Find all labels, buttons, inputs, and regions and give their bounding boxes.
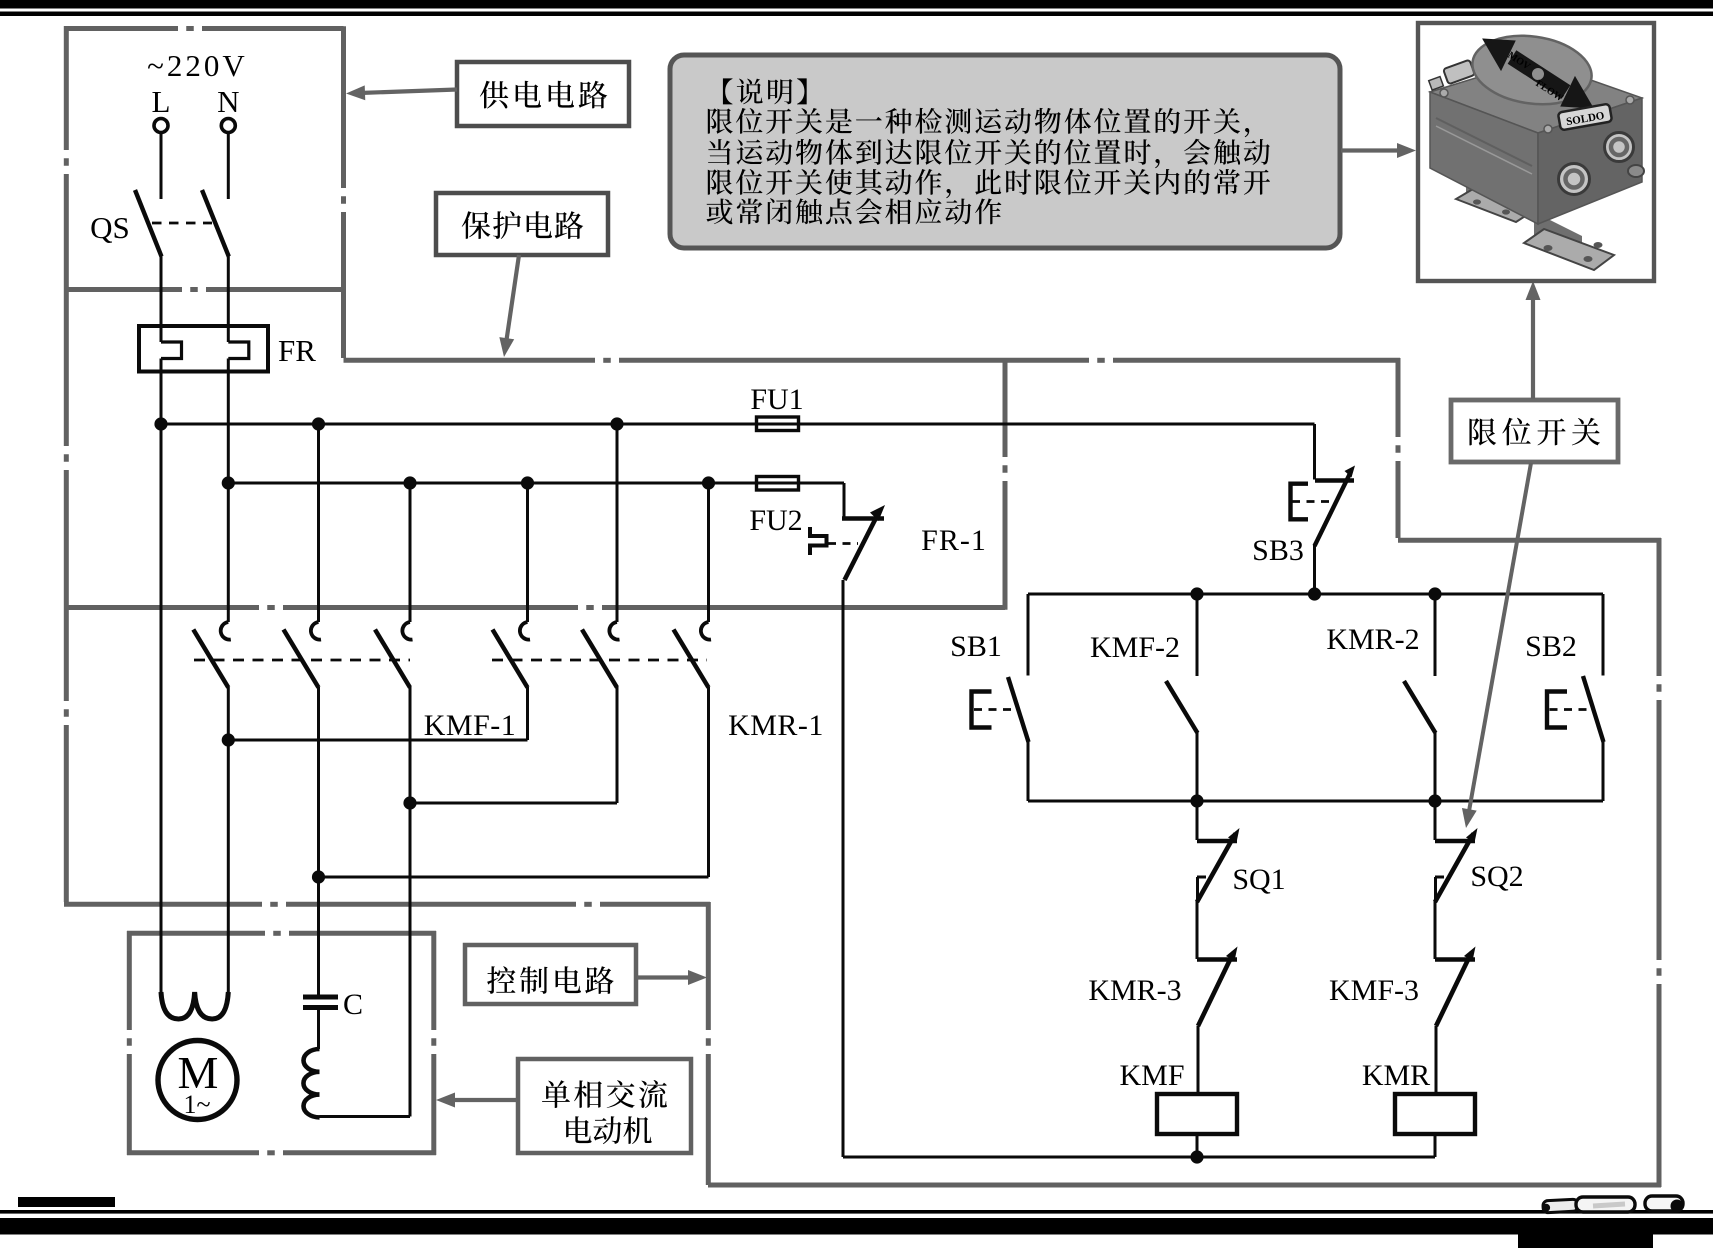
svg-text:FR-1: FR-1 (921, 524, 987, 557)
svg-text:KMF-2: KMF-2 (1090, 631, 1180, 664)
svg-text:KMF-3: KMF-3 (1329, 974, 1419, 1007)
svg-text:KMR-1: KMR-1 (728, 709, 824, 742)
svg-text:KMR-3: KMR-3 (1088, 974, 1181, 1007)
svg-text:SB1: SB1 (950, 630, 1002, 663)
svg-text:KMF: KMF (1119, 1059, 1184, 1092)
svg-text:C: C (343, 988, 363, 1021)
svg-text:KMR: KMR (1362, 1059, 1430, 1092)
svg-text:FU1: FU1 (750, 383, 803, 416)
svg-text:SB2: SB2 (1525, 630, 1577, 663)
svg-text:QS: QS (90, 210, 130, 245)
svg-text:FU2: FU2 (749, 504, 802, 537)
svg-text:KMR-2: KMR-2 (1326, 623, 1419, 656)
svg-text:SB3: SB3 (1252, 534, 1304, 567)
svg-text:FR: FR (278, 333, 316, 368)
svg-text:~220V: ~220V (147, 48, 248, 83)
svg-text:SQ1: SQ1 (1232, 863, 1285, 896)
svg-text:N: N (217, 84, 239, 119)
svg-text:L: L (152, 84, 171, 119)
svg-text:1~: 1~ (183, 1090, 210, 1119)
svg-text:SQ2: SQ2 (1470, 860, 1523, 893)
svg-text:KMF-1: KMF-1 (424, 709, 517, 742)
